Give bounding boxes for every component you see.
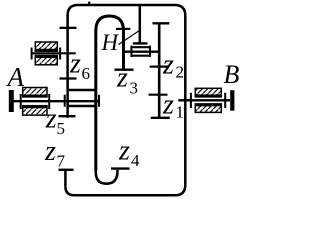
wall anchor of shaft A [9, 90, 14, 112]
lower U to gear z4 [96, 169, 118, 184]
carrier left leg (long vertical) [94, 30, 97, 170]
bearing B right tick [224, 93, 226, 108]
sleeve coupling lower bar [131, 55, 150, 57]
svg-text:z: z [162, 50, 174, 81]
carrier right leg down to gear z3 [122, 30, 125, 70]
gear z3 end dash (T-bar) [115, 68, 134, 70]
bearing A left tick [20, 94, 22, 109]
ring gear tooth mark on left wall (lower) [60, 77, 77, 79]
gear z2 top dash [153, 22, 170, 24]
svg-text:z: z [44, 136, 56, 167]
output shaft B [178, 99, 230, 101]
svg-text:1: 1 [176, 102, 185, 121]
bearing B upper block [195, 88, 221, 97]
carrier dome (inverted U) [96, 16, 124, 31]
carrier horizontal axle [124, 51, 160, 53]
svg-text:z: z [118, 136, 130, 167]
svg-text:H: H [101, 30, 120, 55]
svg-text:5: 5 [57, 119, 66, 138]
gear z1 top dash [149, 94, 168, 96]
sleeve lower bar under shaft A [68, 105, 96, 107]
svg-text:z: z [45, 103, 57, 134]
gear z5 end dash (T-bar) [59, 115, 76, 117]
svg-text:z: z [116, 62, 128, 93]
svg-text:6: 6 [82, 64, 91, 83]
bearing z6 upper block [35, 42, 57, 51]
hub tick on shaft A at sleeve right [98, 95, 100, 107]
sleeve upper bar over shaft A [68, 89, 96, 91]
bearing A lower block [23, 106, 47, 115]
svg-text:7: 7 [57, 151, 66, 170]
ring gear tooth mark on left wall (upper) [60, 27, 77, 29]
tooth mark on top edge [88, 2, 90, 6]
svg-text:3: 3 [130, 79, 139, 98]
bearing z6 left tick [31, 48, 33, 60]
bearing A upper block [23, 88, 47, 97]
gear z7 end dash (T-bar) [59, 169, 74, 171]
tooth mark on carrier right leg [116, 28, 130, 30]
svg-text:4: 4 [131, 151, 140, 170]
input shaft A [10, 100, 99, 102]
gear z2 bottom dash [150, 65, 169, 67]
sleeve coupling upper bar [131, 46, 150, 48]
gear z1 bottom dash [151, 117, 170, 119]
bearing z6 right tick [59, 48, 61, 60]
central gear shaft (z1-z2) [158, 23, 161, 118]
svg-text:z: z [162, 90, 174, 121]
leader line to carrier H [119, 30, 140, 44]
planet axle T-bar [133, 42, 148, 44]
axle of gear z6 (stub shaft) [31, 52, 76, 54]
wall anchor of shaft B [230, 90, 234, 111]
svg-text:z: z [69, 49, 81, 80]
sleeve coupling right tick [149, 46, 151, 57]
svg-text:B: B [224, 60, 240, 89]
svg-text:A: A [6, 62, 25, 92]
planet axle post from top edge [139, 5, 142, 43]
housing link: rounded frame (left wall, top, right wall, bottom) [65, 5, 185, 195]
svg-text:2: 2 [176, 63, 185, 82]
bearing B lower block [195, 104, 221, 113]
bearing z6 lower block [35, 56, 57, 65]
bearing A right tick [48, 94, 50, 109]
sleeve coupling left tick [130, 46, 132, 57]
gear z4 end dash (T-bar) [111, 167, 130, 169]
bearing B left tick [190, 93, 192, 108]
hub tick on shaft A at sleeve left [64, 95, 66, 107]
